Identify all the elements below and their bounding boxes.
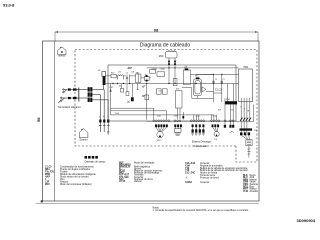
supply drop crimps: [99, 120, 109, 123]
svg-text:Diodo emisor de luz (verde): Diodo emisor de luz (verde): [60, 176, 89, 179]
crimp terminals row 1: [68, 88, 77, 99]
svg-text:A1P: A1P: [128, 67, 133, 70]
svg-text:Motor del compresor (trifásico: Motor del compresor (trifásico): [60, 183, 92, 186]
field wire lugs: [240, 132, 250, 135]
filter row link wire: [106, 76, 151, 78]
svg-text:M1C: M1C: [45, 184, 50, 186]
svg-text:Interior: Interior: [58, 54, 65, 57]
svg-text:Varistor: Varistor: [134, 180, 142, 183]
svg-text:X106A: X106A: [185, 181, 192, 184]
feeder with arrow: [110, 84, 112, 115]
legend column 2: [119, 161, 163, 183]
coil L: [118, 75, 124, 76]
harness wires to connectors: [111, 84, 214, 120]
legend column 3: [185, 162, 249, 184]
junction dots motor wires: [168, 67, 175, 68]
svg-text:Condensador de funcionamiento: Condensador de funcionamiento: [60, 165, 94, 168]
component block: [136, 74, 141, 82]
svg-text:C1,C2: C1,C2: [215, 90, 222, 92]
terminal bar X2M: [228, 84, 234, 102]
field node wire: [236, 121, 253, 123]
connector X21A valve motor: [210, 120, 219, 137]
svg-text:Conector: Conector: [200, 181, 210, 184]
svg-text:SA2: SA2: [136, 71, 139, 74]
svg-text:Exterior Descarga: Exterior Descarga: [192, 141, 211, 144]
svg-text:X105A: X105A: [152, 68, 158, 71]
compressor M1C block: [182, 74, 214, 98]
ground symbol supply: [107, 132, 110, 134]
field terminal dashed notch: [236, 146, 257, 162]
lower rule: [36, 202, 260, 204]
power module PM1: [239, 69, 253, 102]
supply drop ticks: [99, 125, 102, 127]
terminal bar X3M: [240, 128, 253, 130]
corner mark: [41, 200, 43, 202]
PCB bottom connectors row: [146, 120, 236, 122]
reactor L1R block: [183, 68, 190, 84]
svg-text:V2,V3: V2,V3: [119, 181, 126, 183]
PM wire left: [147, 67, 239, 69]
outdoor unit dashed boundary: [75, 50, 257, 147]
fuse F1U: [111, 74, 116, 78]
connector strip: [78, 88, 80, 102]
svg-text:1. Consulte la especificación: 1. Consulte la especificación de conexió…: [153, 209, 250, 212]
house icon interior: [58, 47, 66, 55]
branch with diode box: [126, 84, 128, 92]
svg-text:HAP: HAP: [45, 176, 50, 179]
upper bus wire: [196, 74, 239, 76]
svg-text:YLW: YLW: [243, 191, 249, 193]
connector X30A: [174, 120, 182, 136]
transformer cross mark: [127, 101, 129, 103]
thermistor R3T pair: [229, 105, 234, 133]
capacitors: [126, 75, 128, 83]
terminal block X1M: [88, 87, 93, 102]
filter components on PCB: [106, 74, 167, 100]
fan motor M1F top: [166, 51, 178, 84]
fan motor M1F bottom: [157, 131, 163, 137]
main PCB A1P: [108, 65, 236, 121]
svg-text:98: 98: [154, 28, 159, 33]
PM1 pin wires: [241, 98, 250, 102]
legend colors: [243, 174, 259, 193]
frame inner rule: [54, 41, 56, 201]
connector X11A thermistors: [190, 120, 204, 136]
svg-text:Reactor: Reactor: [60, 181, 68, 184]
svg-text:X3M: X3M: [254, 130, 258, 132]
disconnect switch S1: [63, 89, 68, 93]
svg-text:R2T: R2T: [218, 110, 221, 112]
capacitor block C4: [173, 79, 177, 86]
svg-text:Diagrama de cableado: Diagrama de cableado: [140, 43, 191, 49]
svg-text:DB1: DB1: [110, 87, 113, 89]
svg-text:Z1C~Z4C: Z1C~Z4C: [185, 172, 195, 175]
TB blocks left of motor: [150, 70, 165, 77]
svg-text:Cableado de campo: Cableado de campo: [85, 161, 107, 163]
disconnect switch S2: [58, 97, 67, 103]
svg-text:93,0-8: 93,0-8: [3, 2, 15, 7]
field wiring drops right: [236, 102, 258, 158]
svg-text:Protector de tierra: Protector de tierra: [200, 176, 219, 179]
wires power entry: [71, 89, 73, 91]
svg-text:Exterior: Exterior: [80, 139, 88, 142]
svg-text:C1: C1: [215, 79, 217, 81]
rectifier verticals: [110, 84, 139, 115]
svg-text:3D090904: 3D090904: [297, 218, 316, 223]
svg-text:M1F: M1F: [157, 140, 160, 142]
svg-text:Motor del ventilador: Motor del ventilador: [134, 161, 155, 164]
branch with dark component: [131, 84, 133, 98]
short branch: [137, 84, 139, 90]
noise filter bar Z1C: [102, 72, 106, 77]
wires X1M to supply drops: [92, 89, 103, 91]
outer frame: [43, 41, 260, 201]
crimp slashes: [240, 118, 251, 121]
diode bridge DB1: [131, 97, 134, 101]
connector feed stubs: [194, 115, 217, 120]
svg-text:Condensador: Condensador: [194, 145, 208, 148]
junction dots on bus: [112, 74, 222, 84]
svg-text:R1T: R1T: [159, 91, 162, 93]
field connector plug: [246, 140, 252, 146]
thermistor probes: [191, 127, 204, 135]
relay K1R block: [176, 91, 183, 120]
relay contact pair: [142, 85, 145, 97]
field wiring legend squares: [85, 156, 98, 159]
svg-text:98: 98: [36, 117, 41, 122]
dc link capacitors C1 C2: [212, 75, 223, 103]
crimp marks filter row: [146, 75, 148, 81]
svg-text:X2M: X2M: [226, 99, 230, 101]
main bus wire: [104, 83, 239, 85]
branch with connector box: [121, 84, 123, 89]
legend column 1: [45, 165, 97, 186]
svg-text:M1F: M1F: [159, 56, 164, 58]
sensor blocks: [157, 89, 162, 94]
dimension arrowheads: [55, 31, 258, 33]
svg-text:V3: V3: [119, 86, 121, 88]
connector X20A fan: [153, 120, 170, 138]
svg-text:MRM10,20: MRM10,20: [119, 167, 131, 169]
svg-text:Amarillo: Amarillo: [250, 190, 259, 193]
svg-text:X106A: X106A: [160, 68, 166, 71]
thermistor R2T: [224, 98, 226, 127]
svg-text:C5: C5: [126, 73, 128, 75]
width dimension line 98: [55, 32, 258, 41]
single pin connector: [182, 112, 184, 120]
varistor block: [145, 76, 150, 80]
house icon exterior: [79, 129, 88, 138]
svg-text:Suministro eléctrico: Suministro eléctrico: [58, 105, 81, 109]
svg-text:PM1: PM1: [244, 67, 249, 69]
labels filter: [98, 66, 250, 112]
